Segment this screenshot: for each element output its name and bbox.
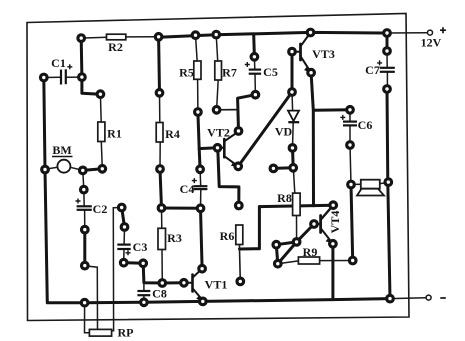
svg-text:R6: R6 [220,229,235,243]
svg-text:VD: VD [275,125,293,139]
svg-text:R5: R5 [179,66,194,80]
svg-text:R8: R8 [277,191,292,205]
svg-text:VT4: VT4 [328,211,342,234]
svg-text:C6: C6 [358,118,373,132]
svg-text:R2: R2 [108,40,123,54]
svg-text:12V: 12V [421,36,442,50]
svg-text:C3: C3 [133,240,148,254]
svg-text:R1: R1 [107,127,122,141]
svg-text:BM: BM [52,143,71,157]
svg-text:R4: R4 [165,127,180,141]
svg-text:R9: R9 [303,245,318,259]
svg-text:C7: C7 [365,63,380,77]
svg-text:C1: C1 [51,56,66,70]
svg-text:C5: C5 [263,65,278,79]
svg-text:C4: C4 [180,182,195,196]
svg-text:R7: R7 [222,66,237,80]
svg-text:C2: C2 [93,202,108,216]
svg-text:R3: R3 [167,231,182,245]
svg-text:RP: RP [118,326,134,340]
svg-text:VT2: VT2 [207,126,230,140]
svg-text:C8: C8 [152,287,167,301]
svg-text:VT1: VT1 [205,278,228,292]
svg-text:VT3: VT3 [312,47,335,61]
